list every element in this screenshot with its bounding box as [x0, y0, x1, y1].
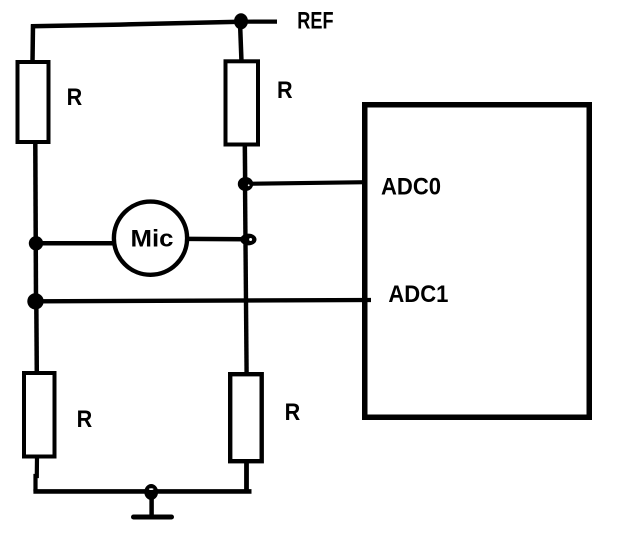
IC box (ADC) — [365, 105, 590, 418]
svg-text:R: R — [285, 399, 301, 426]
junction dot ADC0 node — [238, 177, 253, 191]
node ring at mic/right junction — [240, 234, 256, 246]
junction dot left mic row — [29, 236, 43, 250]
svg-text:Mic: Mic — [131, 225, 174, 252]
wire REF stub right of junction — [240, 20, 277, 24]
junction dot REF — [234, 13, 248, 29]
node hole ADC0 dot — [248, 184, 250, 186]
wire top-right resistor to ADC0 node — [243, 143, 248, 186]
node ring hole — [249, 238, 252, 241]
svg-text:ADC0: ADC0 — [381, 174, 441, 201]
svg-text:R: R — [77, 406, 93, 433]
wire below bottom-right resistor — [244, 460, 249, 493]
wire left vertical (R to ADC1 node) — [33, 142, 38, 302]
resistor R (top-left) — [18, 62, 49, 142]
resistor R (bottom-left) — [24, 373, 55, 457]
ground bar — [134, 515, 172, 520]
wire mic row right — [186, 237, 247, 242]
wire bottom horizontal (ground rail) — [33, 489, 251, 494]
wire ADC1 horizontal — [36, 300, 372, 301]
svg-text:R: R — [67, 84, 83, 111]
ground ring hole — [149, 488, 154, 490]
junction dot ADC1 node left — [27, 293, 43, 309]
svg-text:REF: REF — [297, 8, 333, 35]
wire mic row left — [34, 241, 116, 246]
wire right vertical (through bridge mid) — [245, 184, 247, 374]
node ring at ground junction — [144, 484, 158, 500]
svg-text:R: R — [277, 77, 293, 104]
wire ground stub — [149, 492, 154, 516]
microphone Mic — [114, 202, 187, 275]
wire left lower vertical — [34, 301, 39, 374]
wire below bottom-left resistor — [36, 457, 38, 491]
wire top-left vertical drop — [30, 24, 35, 62]
resistor R (bottom-right) — [230, 374, 262, 461]
svg-text:ADC1: ADC1 — [388, 281, 448, 308]
wire top-right vertical drop — [240, 22, 242, 62]
wire top horizontal (REF rail) — [31, 22, 240, 27]
resistor R (top-right) — [226, 61, 259, 144]
wire ADC0 horizontal — [245, 182, 367, 184]
